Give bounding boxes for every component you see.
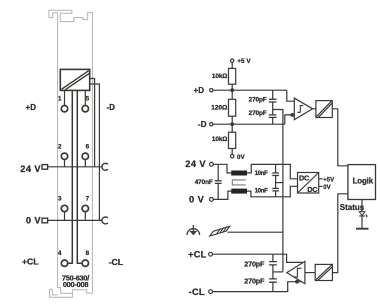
capacitor C5 10nF	[272, 183, 279, 197]
svg-text:4: 4	[58, 250, 62, 257]
svg-text:120Ω: 120Ω	[211, 104, 228, 111]
svg-text:0V: 0V	[323, 185, 330, 191]
functional earth symbol	[187, 225, 200, 235]
converter U3 DC/DC	[298, 173, 319, 194]
wire terminal 1 stem	[64, 90, 66, 105]
svg-text:+5 V: +5 V	[237, 58, 251, 65]
svg-text:DC: DC	[307, 185, 317, 194]
svg-text:270pF: 270pF	[249, 97, 267, 104]
svg-text:3: 3	[58, 196, 62, 203]
+CL input terminal	[209, 252, 213, 256]
svg-text:+5V: +5V	[323, 177, 334, 183]
svg-text:1: 1	[58, 96, 62, 103]
svg-text:Status: Status	[340, 203, 365, 212]
wire -CL to driver	[213, 282, 302, 292]
-CL input terminal	[209, 290, 213, 294]
24V field terminal pad	[42, 165, 48, 170]
svg-text:10nF: 10nF	[255, 170, 269, 177]
svg-text:10nF: 10nF	[255, 188, 269, 195]
wire R3 to 0V	[231, 149, 233, 155]
wire 24V to choke	[213, 164, 231, 173]
module body outline	[49, 10, 93, 297]
svg-text:-CL: -CL	[189, 287, 205, 297]
24V power jumper contact	[102, 163, 108, 170]
svg-text:0 V: 0 V	[189, 195, 205, 205]
wire terminal 5 stem	[84, 90, 86, 105]
capacitor C3 470nF	[215, 164, 222, 199]
0V terminal top section	[231, 155, 234, 158]
capacitor C2 270pF	[269, 110, 277, 125]
svg-text:0V: 0V	[237, 154, 245, 161]
isolator U5	[315, 264, 332, 280]
wire +D line	[213, 89, 287, 91]
ground bar status	[356, 228, 369, 230]
svg-text:270pF: 270pF	[244, 259, 265, 268]
wire 0V bus	[48, 219, 102, 221]
svg-text:5: 5	[86, 96, 90, 103]
wire rail right (bus bar)	[77, 90, 81, 263]
wire comparator to isolator	[313, 108, 316, 110]
svg-text:+CL: +CL	[188, 249, 207, 259]
shield symbol	[210, 226, 230, 236]
wire 10nF midpoint to earth rail	[276, 182, 283, 184]
0V power jumper contact	[102, 217, 108, 224]
svg-text:+CL: +CL	[22, 256, 38, 266]
transformer T1 isolation box	[60, 69, 89, 90]
wire choke to DCDC top	[247, 164, 298, 178]
op-amp U1 comparator	[294, 98, 312, 120]
svg-text:6: 6	[86, 143, 90, 150]
0V field terminal pad	[42, 218, 48, 223]
wire DCDC +5V output	[319, 178, 323, 180]
svg-text:8: 8	[86, 250, 90, 257]
-D input terminal	[210, 123, 213, 126]
svg-text:2: 2	[58, 143, 62, 150]
node driver output dot	[295, 280, 299, 284]
wire +D node to R2	[231, 90, 233, 99]
wire +CL to driver	[213, 254, 303, 262]
wire transformer to 24V contact	[90, 79, 95, 167]
capacitor C7 270pF	[269, 272, 277, 292]
wire choke to DCDC bottom	[247, 186, 298, 197]
svg-text:24 V: 24 V	[20, 164, 41, 174]
svg-text:10kΩ: 10kΩ	[212, 73, 227, 80]
wire terminal 3 stem	[64, 212, 66, 220]
+D input terminal	[210, 89, 213, 92]
LED D1 status	[359, 212, 367, 217]
wire terminal 7 stem	[84, 212, 86, 220]
capacitor C4 10nF	[272, 164, 279, 182]
inductor L2 winding	[231, 189, 247, 194]
resistor R2 120Ohm	[229, 99, 236, 116]
wire bottom cap midpoint to earth rail	[273, 271, 283, 273]
wire cap midpoint to earth rail	[273, 110, 283, 272]
terminal 8	[82, 260, 88, 266]
capacitor C6 270pF	[269, 254, 277, 272]
node -D junction	[230, 122, 234, 126]
wire LED to bar	[361, 216, 363, 229]
wire R2 to -D node	[231, 116, 233, 124]
wire -D node to R3	[231, 124, 233, 132]
svg-text:+D: +D	[26, 103, 37, 112]
inductor L1 winding	[231, 171, 247, 176]
svg-text:270pF: 270pF	[244, 277, 265, 286]
logic block Logik	[348, 165, 376, 200]
isolator U2	[316, 101, 332, 118]
node comparator input dot	[290, 113, 294, 117]
svg-text:24 V: 24 V	[185, 159, 206, 169]
wire transformer to 0V contact	[90, 84, 100, 220]
op-amp U4 line driver	[287, 261, 305, 283]
wire logic to LED	[361, 200, 363, 212]
wire 0V to choke	[213, 191, 231, 199]
svg-text:-D: -D	[198, 120, 207, 129]
terminal 4	[61, 260, 67, 266]
24V input terminal	[210, 162, 214, 166]
wire isolator2 to logic	[332, 194, 347, 273]
resistor R3 10kOhm	[229, 132, 236, 148]
wire +D to comparator	[287, 90, 295, 101]
+5V supply terminal	[231, 59, 234, 62]
wire -D to comparator	[285, 115, 295, 124]
capacitor C1 270pF	[269, 90, 277, 109]
svg-text:-CL: -CL	[109, 257, 123, 267]
terminal 2	[61, 153, 67, 159]
terminal 1	[61, 106, 67, 112]
terminal 6	[82, 153, 88, 159]
node +D junction	[230, 88, 234, 92]
svg-text:0 V: 0 V	[26, 215, 42, 225]
wire rail left (bus bar)	[68, 90, 72, 263]
wire isolator to logic	[332, 109, 347, 166]
wire driver to isolator2	[305, 272, 315, 274]
svg-text:DC: DC	[299, 173, 309, 182]
wire -D line	[213, 123, 285, 125]
0V input terminal	[210, 198, 214, 202]
wire DCDC 0V output	[319, 185, 323, 187]
wire terminal 6 stem	[84, 160, 86, 167]
svg-text:000-008: 000-008	[63, 280, 89, 289]
wire shield to earth rail	[228, 231, 283, 233]
resistor R1 10kOhm	[229, 68, 236, 84]
wire +5V to R1	[231, 62, 233, 68]
wire terminal 2 stem	[64, 160, 66, 167]
svg-text:270pF: 270pF	[249, 110, 267, 117]
svg-text:470nF: 470nF	[195, 179, 213, 186]
wire 24V bus	[48, 166, 102, 168]
terminal 5	[82, 106, 88, 112]
svg-text:Logik: Logik	[353, 176, 374, 185]
terminal 3	[61, 205, 67, 211]
terminal 7	[82, 205, 88, 211]
svg-text:10kΩ: 10kΩ	[212, 136, 227, 143]
svg-text:-D: -D	[107, 103, 116, 112]
svg-text:+D: +D	[194, 86, 205, 95]
inductor core	[232, 180, 245, 185]
wire R1 to +D node	[231, 84, 233, 90]
svg-text:7: 7	[86, 196, 90, 203]
